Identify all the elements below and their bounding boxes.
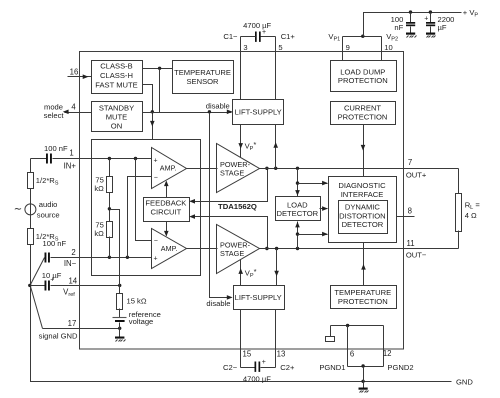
IC TDA1562Q outline xyxy=(80,52,404,350)
wire OUT- pin11 xyxy=(260,239,459,260)
block TEMPERATURE SENSOR xyxy=(173,61,234,94)
junction diag branch bottom xyxy=(296,232,299,235)
svg-text:100 nF: 100 nF xyxy=(44,144,68,153)
wire pin15 C2- xyxy=(241,310,252,368)
svg-text:OUT−: OUT− xyxy=(406,251,427,260)
capacitor C1 4700uF top xyxy=(223,21,295,42)
wire temperature protection to diagnostic arrow xyxy=(361,243,366,286)
wire OUT+ to load detector arrow xyxy=(295,169,300,197)
ground power xyxy=(359,388,369,393)
junction on mute wire xyxy=(151,110,154,113)
reference voltage source xyxy=(113,310,161,326)
wire pin16 input xyxy=(68,68,92,80)
svg-text:PROTECTION: PROTECTION xyxy=(338,76,388,85)
svg-text:DETECTOR: DETECTOR xyxy=(342,220,384,229)
svg-text:DISTORTION: DISTORTION xyxy=(339,211,386,220)
wire IN+ to bottom amp minus xyxy=(136,159,152,241)
svg-text:∼: ∼ xyxy=(14,204,22,215)
svg-text:AMP.: AMP. xyxy=(161,244,178,253)
svg-text:DYNAMIC: DYNAMIC xyxy=(345,203,381,212)
junction IN+ / 75k xyxy=(108,157,111,160)
junction 75k middle xyxy=(108,207,111,210)
svg-text:FAST MUTE: FAST MUTE xyxy=(95,81,137,90)
block TEMPERATURE PROTECTION xyxy=(331,286,397,309)
wire pin8 stub xyxy=(397,206,415,216)
wire lift supply to power stage Vp* arrow xyxy=(238,125,256,158)
wire internal ground rail PGND xyxy=(331,325,384,327)
svg-text:C1−: C1− xyxy=(223,32,238,41)
junction diag branch top xyxy=(296,181,299,184)
svg-text:µF: µF xyxy=(438,23,447,32)
svg-text:+: + xyxy=(154,255,158,262)
wire pin2 IN- into amp xyxy=(51,248,152,268)
svg-text:DIAGNOSTIC: DIAGNOSTIC xyxy=(338,181,386,190)
svg-text:STAGE: STAGE xyxy=(220,168,244,177)
svg-text:CLASS-H: CLASS-H xyxy=(100,71,133,80)
junction GND rail xyxy=(361,380,364,383)
capacitor 100nF supply xyxy=(391,13,416,33)
svg-text:kΩ: kΩ xyxy=(94,229,104,238)
junction IN- / cross line xyxy=(126,256,129,259)
op-amp AMP bottom xyxy=(152,229,187,269)
svg-text:nF: nF xyxy=(394,23,403,32)
wire pin13 C2+ xyxy=(276,310,286,368)
wire PGND to GND rail xyxy=(363,367,365,388)
block FEEDBACK CIRCUIT xyxy=(144,198,190,222)
wire pin12 PGND2 xyxy=(383,326,414,372)
svg-text:CIRCUIT: CIRCUIT xyxy=(151,208,182,217)
op-amp AMP top xyxy=(152,148,187,189)
svg-text:voltage: voltage xyxy=(129,317,154,326)
svg-text:STAGE: STAGE xyxy=(220,249,244,258)
resistor 75k top xyxy=(94,175,112,193)
svg-text:SENSOR: SENSOR xyxy=(186,77,219,86)
svg-text:ON: ON xyxy=(111,121,122,130)
node source ground xyxy=(28,284,31,287)
svg-text:C2+: C2+ xyxy=(280,363,295,372)
svg-text:PROTECTION: PROTECTION xyxy=(338,112,388,121)
svg-text:PGND1: PGND1 xyxy=(319,363,345,372)
wire pin4 mode select xyxy=(44,103,92,120)
wire OUT- down to bottom lift supply xyxy=(274,249,279,286)
block LOAD DUMP PROTECTION xyxy=(331,61,397,92)
svg-text:4700 µF: 4700 µF xyxy=(243,21,271,30)
junction IN- / 75k xyxy=(108,256,111,259)
svg-text:disable: disable xyxy=(206,299,230,308)
wire ground node diagonal to signal gnd xyxy=(31,287,43,329)
ground 2200uF supply xyxy=(426,33,436,38)
svg-text:LOAD: LOAD xyxy=(287,200,308,209)
wire 75k chain xyxy=(109,159,111,177)
wire feedback to top amp arrow xyxy=(164,181,169,198)
wire OUT+ sense to feedback xyxy=(189,169,267,204)
wire branch to diagnostic top xyxy=(298,181,328,186)
svg-text:−: − xyxy=(154,238,158,245)
block DYNAMIC DISTORTION DETECTOR inner xyxy=(339,201,388,234)
svg-text:−: − xyxy=(154,175,158,182)
junction pin6 xyxy=(346,324,349,327)
svg-text:TDA1562Q: TDA1562Q xyxy=(218,202,257,211)
wire resistor to source to resistor xyxy=(30,189,32,229)
wire reference to ground xyxy=(119,323,121,337)
svg-text:9: 9 xyxy=(346,43,350,52)
wire OUT- sense to feedback xyxy=(189,214,267,248)
junction OUT- liftsupply xyxy=(275,247,278,250)
svg-text:1: 1 xyxy=(69,148,73,157)
svg-text:+: + xyxy=(154,157,158,164)
capacitor 100nF IN- xyxy=(43,239,67,263)
wire VP1 VP2 bridge xyxy=(328,32,398,43)
arrow down on mute wire xyxy=(150,121,155,127)
wire disable down to bottom LIFT-SUPPLY xyxy=(206,113,232,309)
wire OUT+ pin7 xyxy=(260,158,459,180)
svg-text:+: + xyxy=(424,16,428,23)
block STANDBY/MUTE/ON xyxy=(92,102,143,132)
svg-text:INTERFACE: INTERFACE xyxy=(341,190,384,199)
junction OUT+ load detector xyxy=(296,167,299,170)
svg-text:C2−: C2− xyxy=(223,363,238,372)
svg-text:15: 15 xyxy=(243,350,252,359)
wire pin5 C1+ to lift supply xyxy=(276,37,283,100)
wire CLASS-B fast mute down to amp box xyxy=(143,85,153,140)
svg-text:6: 6 xyxy=(350,350,354,359)
svg-text:TEMPERATURE: TEMPERATURE xyxy=(334,288,391,297)
svg-text:10 µF: 10 µF xyxy=(42,271,62,280)
junction OUT+ sense xyxy=(265,167,268,170)
wire pin14 Vref xyxy=(51,276,120,298)
tab symbol xyxy=(326,326,335,342)
svg-text:4: 4 xyxy=(71,103,76,112)
svg-text:LOAD DUMP: LOAD DUMP xyxy=(340,67,385,76)
wire amp top to power stage xyxy=(187,168,218,170)
svg-text:4700 µF: 4700 µF xyxy=(243,374,271,383)
svg-text:STANDBY: STANDBY xyxy=(99,103,134,112)
wire disable to top LIFT-SUPPLY xyxy=(143,102,233,114)
svg-text:IN−: IN− xyxy=(64,259,77,268)
svg-text:PROTECTION: PROTECTION xyxy=(338,297,388,306)
power stage bottom triangle xyxy=(217,225,260,274)
svg-text:MUTE: MUTE xyxy=(106,112,128,121)
block LOAD DETECTOR xyxy=(276,197,321,221)
svg-text:CURRENT: CURRENT xyxy=(344,104,381,113)
wire load detector to diagnostic xyxy=(320,206,328,211)
wire node down to disable line xyxy=(159,69,161,113)
wire supply rail +Vp xyxy=(364,8,479,36)
junction OUT- sense xyxy=(265,247,268,250)
resistor 1/2*Rs bottom xyxy=(28,229,59,245)
wire CLASS-B to TEMPERATURE SENSOR xyxy=(143,68,173,70)
svg-text:8: 8 xyxy=(408,206,412,215)
junction rail 100n xyxy=(409,10,412,13)
junction VP bridge xyxy=(361,35,364,38)
svg-text:4 Ω: 4 Ω xyxy=(465,211,477,220)
wire IN- cap to ground node diagonal xyxy=(31,258,45,285)
svg-text:source: source xyxy=(37,210,60,219)
wire resistor down to ground node xyxy=(30,245,32,286)
ground signal xyxy=(115,337,126,342)
block DIAGNOSTIC INTERFACE outer xyxy=(329,177,397,243)
svg-text:16: 16 xyxy=(70,68,79,77)
capacitor C2 4700uF bottom xyxy=(223,359,295,383)
svg-text:15 kΩ: 15 kΩ xyxy=(127,296,147,305)
svg-text:TEMPERATURE: TEMPERATURE xyxy=(174,68,231,77)
svg-text:3: 3 xyxy=(243,43,247,52)
svg-text:DETECTOR: DETECTOR xyxy=(276,209,318,218)
capacitor 2200uF supply xyxy=(424,13,454,33)
wire pin3 C1- to lift supply xyxy=(241,37,248,100)
wire feedback to bottom amp arrow xyxy=(164,222,169,237)
wire OUT- to load detector arrow xyxy=(295,222,300,249)
junction Vref / 15k xyxy=(118,284,121,287)
svg-text:LIFT-SUPPLY: LIFT-SUPPLY xyxy=(235,293,282,302)
junction PGND bridge xyxy=(361,364,364,367)
svg-text:17: 17 xyxy=(68,319,77,328)
wire branch to diagnostic bottom xyxy=(298,232,328,237)
junction disable wire xyxy=(208,110,211,113)
svg-text:GND: GND xyxy=(456,377,473,386)
wire pin9 to load dump xyxy=(343,37,350,61)
wire ground node down to GND rail xyxy=(31,287,452,382)
svg-text:IN+: IN+ xyxy=(64,161,77,170)
ground 100nF supply xyxy=(406,33,417,38)
power stage top triangle xyxy=(217,144,260,193)
wire IN- to top amp minus xyxy=(128,177,152,258)
wire OUT+ up to lift supply arrow xyxy=(273,125,278,169)
junction rail 2200u xyxy=(429,10,432,13)
svg-text:13: 13 xyxy=(277,350,286,359)
wire RL to OUT- xyxy=(458,231,460,249)
junction OUT- load detector xyxy=(296,247,299,250)
amplifier enclosure box xyxy=(92,140,201,276)
wire pin6 PGND1 xyxy=(319,326,354,372)
junction IN+ / cross line xyxy=(134,157,137,160)
resistor 15k xyxy=(117,294,147,310)
junction OUT+ liftsupply xyxy=(274,167,277,170)
wire amp bottom to power stage xyxy=(187,248,218,250)
svg-text:OUT+: OUT+ xyxy=(406,170,427,179)
svg-text:select: select xyxy=(44,111,65,120)
block CURRENT PROTECTION xyxy=(331,102,396,125)
svg-text:disable: disable xyxy=(206,102,230,111)
svg-text:11: 11 xyxy=(406,239,414,248)
audio source circle xyxy=(14,200,60,220)
wire pin10 to load dump xyxy=(382,37,393,61)
wire current protection to OUT+ xyxy=(361,125,366,177)
wire 75k middle to Vref xyxy=(110,210,120,286)
node junction xyxy=(158,67,161,70)
svg-text:7: 7 xyxy=(408,158,412,167)
wire left rail down to resistor xyxy=(30,159,32,173)
resistor RL 4 ohm xyxy=(456,194,481,232)
wire power stage to bottom lift supply Vp* xyxy=(238,260,256,286)
resistor 75k bottom xyxy=(94,220,112,238)
capacitor 10uF Vref xyxy=(31,271,62,291)
block LIFT-SUPPLY bottom xyxy=(234,286,285,310)
block LIFT-SUPPLY top xyxy=(233,100,284,125)
svg-text:RL =: RL = xyxy=(465,200,481,211)
svg-text:2: 2 xyxy=(71,248,75,257)
svg-text:12: 12 xyxy=(383,349,392,358)
junction signal gnd xyxy=(118,327,121,330)
wire pin1 IN+ into amp xyxy=(53,148,152,170)
wire Vref to 15k to reference xyxy=(119,286,121,294)
svg-text:FEEDBACK: FEEDBACK xyxy=(145,199,186,208)
svg-text:+: + xyxy=(262,359,266,366)
svg-text:LIFT-SUPPLY: LIFT-SUPPLY xyxy=(235,108,282,117)
svg-text:100 nF: 100 nF xyxy=(43,239,67,248)
svg-text:AMP.: AMP. xyxy=(160,163,177,172)
capacitor 100nF IN+ xyxy=(31,144,69,164)
block CLASS-B/CLASS-H/FAST MUTE xyxy=(92,61,143,94)
svg-text:14: 14 xyxy=(68,276,77,285)
svg-text:kΩ: kΩ xyxy=(94,184,104,193)
svg-text:signal GND: signal GND xyxy=(39,331,78,340)
svg-text:C1+: C1+ xyxy=(281,32,296,41)
wire PGND bridge xyxy=(348,366,384,368)
svg-text:PGND2: PGND2 xyxy=(387,363,413,372)
svg-text:5: 5 xyxy=(278,43,282,52)
svg-text:audio: audio xyxy=(39,200,58,209)
svg-text:10: 10 xyxy=(384,43,392,52)
wire load RL right side xyxy=(458,169,460,194)
svg-text:CLASS-B: CLASS-B xyxy=(100,62,133,71)
resistor 1/2*Rs top xyxy=(28,173,59,189)
wire pin17 signal GND xyxy=(39,319,120,340)
